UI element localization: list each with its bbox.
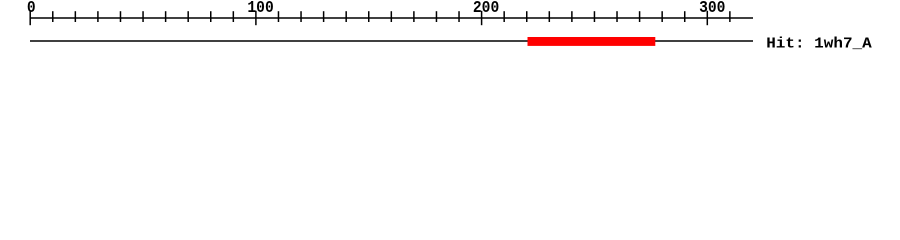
minor tick 40	[119, 11, 121, 22]
minor tick 170	[413, 11, 415, 22]
minor tick 90	[232, 11, 234, 22]
svg-text:0: 0	[27, 0, 36, 17]
hit segment bar (red)	[528, 37, 656, 46]
ruler label 100	[247, 0, 273, 17]
minor tick 20	[74, 11, 76, 22]
ruler label 0	[27, 0, 36, 17]
major tick 200	[481, 11, 483, 25]
hit label: Hit: 1wh7_A	[766, 35, 872, 52]
minor tick 280	[661, 11, 663, 22]
minor tick 240	[571, 11, 573, 22]
minor tick 160	[390, 11, 392, 22]
minor tick 80	[210, 11, 212, 22]
minor tick 50	[142, 11, 144, 22]
minor tick 130	[323, 11, 325, 22]
svg-text:100: 100	[247, 0, 273, 17]
minor tick 60	[165, 11, 167, 22]
minor tick 220	[526, 11, 528, 22]
minor tick 70	[187, 11, 189, 22]
minor tick 120	[300, 11, 302, 22]
major tick 300	[706, 11, 708, 25]
minor tick 10	[52, 11, 54, 22]
minor tick 290	[684, 11, 686, 22]
sequence alignment overview graphic	[0, 0, 900, 60]
minor tick 260	[616, 11, 618, 22]
ruler axis line	[30, 17, 753, 19]
minor tick 140	[345, 11, 347, 22]
ruler label 300	[699, 0, 725, 17]
svg-text:300: 300	[699, 0, 725, 17]
minor tick 310	[729, 11, 731, 22]
minor tick 110	[277, 11, 279, 22]
major tick 0	[29, 11, 31, 25]
major tick 100	[255, 11, 257, 25]
minor tick 150	[368, 11, 370, 22]
svg-text:Hit: 1wh7_A: Hit: 1wh7_A	[766, 35, 872, 52]
minor tick 210	[503, 11, 505, 22]
minor tick 230	[548, 11, 550, 22]
query line	[30, 40, 753, 42]
minor tick 190	[458, 11, 460, 22]
ruler label 200	[473, 0, 499, 17]
minor tick 180	[435, 11, 437, 22]
svg-text:200: 200	[473, 0, 499, 17]
minor tick 30	[97, 11, 99, 22]
minor tick 270	[639, 11, 641, 22]
minor tick 250	[593, 11, 595, 22]
